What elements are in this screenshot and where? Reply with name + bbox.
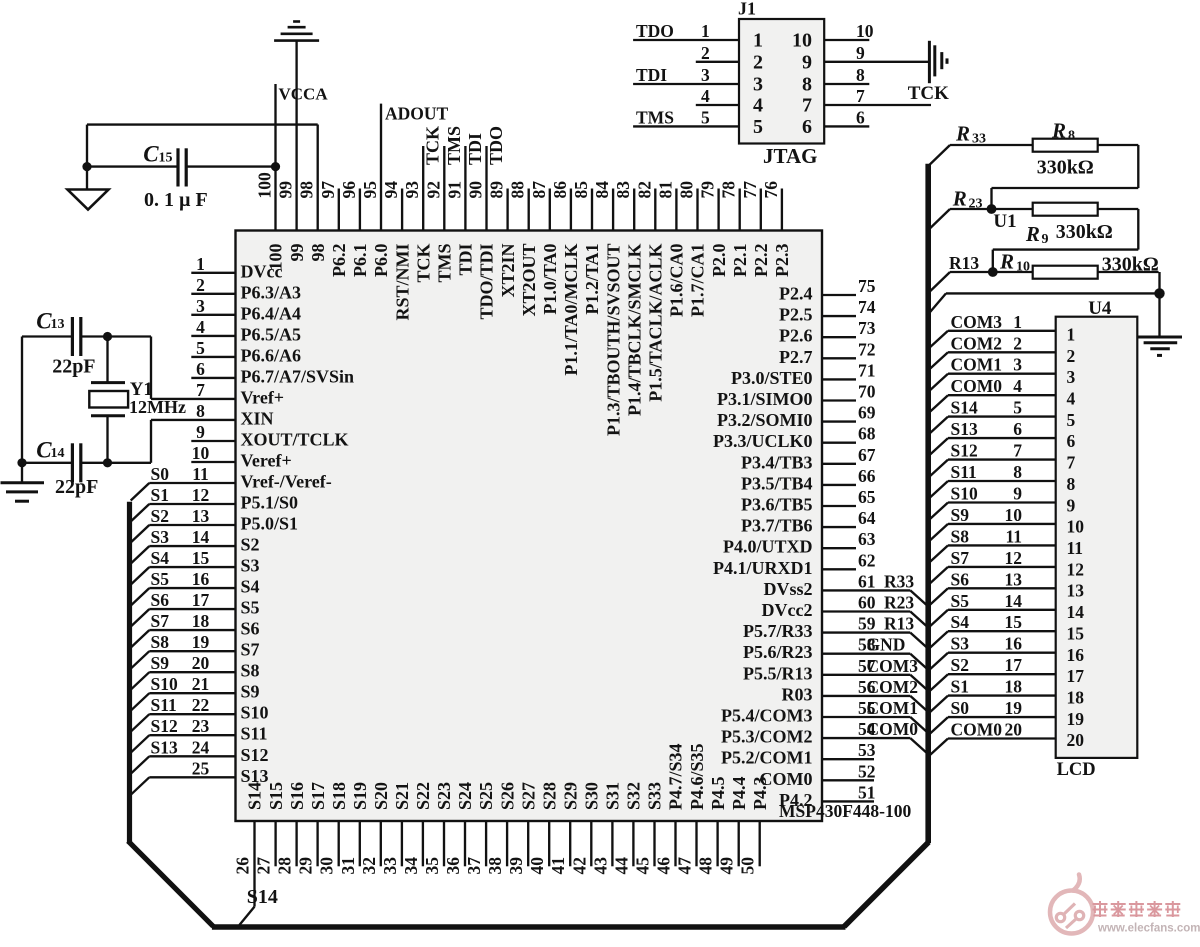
pin 23 (S11): [131, 716, 268, 753]
svg-text:5: 5: [701, 107, 710, 127]
J1 pin 4: [696, 86, 763, 117]
svg-text:S2: S2: [151, 506, 169, 526]
svg-text:51: 51: [858, 782, 876, 802]
svg-text:9: 9: [196, 422, 205, 442]
J1 pin 7: [802, 86, 931, 117]
svg-text:40: 40: [527, 857, 547, 875]
svg-text:P5.1/S0: P5.1/S0: [241, 493, 299, 513]
pin 62 (P4.1/URXD1): [713, 550, 876, 578]
pin 33 (S21): [380, 782, 412, 875]
svg-text:C: C: [143, 142, 159, 167]
U4 pin 14 (S5): [929, 591, 1084, 627]
pin 79 (P2.0): [698, 181, 729, 277]
svg-text:65: 65: [858, 487, 876, 507]
svg-text:P2.6: P2.6: [779, 326, 813, 346]
svg-text:86: 86: [550, 181, 570, 199]
svg-text:8: 8: [856, 65, 865, 85]
pin 17 (S5): [131, 590, 260, 627]
svg-text:42: 42: [569, 857, 589, 875]
svg-text:10: 10: [192, 443, 210, 463]
svg-text:80: 80: [677, 181, 697, 199]
svg-text:25: 25: [192, 758, 210, 778]
J1 pin 10: [792, 21, 874, 52]
pin 100 (100): [255, 84, 286, 271]
pin 75 (P2.4): [779, 276, 876, 304]
pin 43 (S31): [590, 782, 622, 875]
net S14 label: [247, 886, 278, 908]
pin 1 (DVcc): [191, 254, 282, 282]
wire crystal top to XIN: [108, 337, 152, 399]
svg-text:S12: S12: [241, 745, 269, 765]
svg-text:4: 4: [1013, 376, 1022, 396]
svg-text:S6: S6: [151, 590, 170, 610]
svg-text:S10: S10: [951, 484, 978, 504]
MCU MSP430F448-100 body: [236, 231, 823, 822]
svg-text:TDI: TDI: [456, 244, 476, 276]
pin 46 (P4.7/S34): [654, 743, 686, 874]
svg-text:79: 79: [698, 181, 718, 199]
svg-text:COM3: COM3: [867, 656, 919, 676]
svg-text:S29: S29: [561, 782, 581, 810]
pin 73 (P2.6): [779, 318, 876, 346]
svg-text:TDI: TDI: [465, 133, 485, 165]
pin 39 (S27): [506, 782, 538, 875]
svg-text:23: 23: [192, 716, 210, 736]
svg-text:64: 64: [858, 508, 876, 528]
pin 58 (P5.6/R23): [743, 635, 927, 669]
svg-text:5: 5: [1013, 398, 1022, 418]
svg-text:S9: S9: [151, 653, 170, 673]
pin 96 (P6.1): [339, 181, 370, 277]
svg-text:MSP430F448-100: MSP430F448-100: [779, 801, 911, 821]
capacitor C14: [22, 438, 108, 499]
svg-text:S0: S0: [151, 464, 170, 484]
svg-text:10: 10: [856, 21, 874, 41]
pin 11 (Vref-/Veref-): [131, 464, 332, 501]
pin 99 (99): [276, 41, 307, 262]
pin 9 (XOUT/TCLK): [191, 422, 348, 450]
pin 87 (P1.0/TA0): [529, 181, 560, 315]
ground (resistor ladder): [1137, 293, 1182, 355]
svg-text:22pF: 22pF: [52, 356, 95, 378]
svg-text:R: R: [955, 122, 970, 146]
pin 68 (P3.3/UCLK0): [713, 424, 876, 452]
svg-text:S31: S31: [603, 782, 623, 810]
svg-text:S14: S14: [245, 782, 265, 810]
svg-text:S33: S33: [645, 782, 665, 810]
svg-text:S9: S9: [951, 505, 970, 525]
watermark logo (elecfans): [1050, 875, 1200, 935]
junction R23: [987, 204, 997, 214]
U4 pin 5 (S14): [929, 398, 1075, 434]
svg-text:44: 44: [611, 857, 631, 875]
U4 pin 7 (S12): [929, 441, 1075, 477]
svg-text:32: 32: [359, 857, 379, 875]
svg-text:DVcc2: DVcc2: [762, 600, 813, 620]
pin 7 (Vref+): [151, 380, 284, 408]
svg-text:18: 18: [192, 611, 210, 631]
net TCK: [908, 83, 949, 104]
crystal Y1 12MHz: [89, 337, 186, 463]
svg-text:82: 82: [634, 181, 654, 199]
svg-text:33: 33: [972, 132, 986, 147]
svg-text:77: 77: [740, 181, 760, 199]
svg-text:19: 19: [1005, 698, 1023, 718]
svg-text:15: 15: [159, 151, 173, 166]
svg-text:8: 8: [1013, 462, 1022, 482]
wire left rail C13-C14: [21, 337, 23, 463]
svg-text:22pF: 22pF: [55, 476, 98, 498]
pin 26 (S14): [233, 782, 265, 925]
svg-text:49: 49: [717, 857, 737, 875]
svg-text:7: 7: [1013, 441, 1022, 461]
svg-text:48: 48: [696, 857, 716, 875]
svg-text:62: 62: [858, 550, 876, 570]
svg-text:1: 1: [196, 254, 205, 274]
svg-text:1: 1: [753, 30, 763, 52]
svg-text:91: 91: [444, 181, 464, 199]
svg-text:10: 10: [1067, 517, 1085, 537]
svg-text:7: 7: [802, 95, 812, 117]
svg-text:S4: S4: [151, 548, 170, 568]
pin 44 (S32): [611, 782, 643, 875]
svg-text:93: 93: [402, 181, 422, 199]
pin 22 (S10): [131, 695, 269, 732]
svg-text:43: 43: [590, 857, 610, 875]
svg-text:19: 19: [1067, 709, 1085, 729]
svg-text:TDO/TDI: TDO/TDI: [477, 244, 497, 320]
svg-text:95: 95: [360, 181, 380, 199]
svg-text:10: 10: [1016, 260, 1030, 275]
svg-text:S27: S27: [518, 782, 538, 810]
U4 pin 13 (S6): [929, 569, 1084, 605]
svg-text:6: 6: [856, 107, 865, 127]
svg-text:P1.1/TA0/MCLK: P1.1/TA0/MCLK: [561, 244, 581, 376]
svg-text:330kΩ: 330kΩ: [1056, 221, 1113, 243]
pin 35 (S23): [422, 782, 454, 875]
J1 pin 6: [802, 107, 869, 137]
svg-text:47: 47: [675, 857, 695, 875]
pin 55 (P5.4/COM3): [721, 698, 927, 732]
svg-text:TDO: TDO: [486, 126, 506, 165]
net VCCA: [279, 85, 329, 104]
wire R10 to ground: [1098, 272, 1160, 293]
svg-text:S12: S12: [951, 441, 978, 461]
U4 pin 11 (S8): [929, 526, 1083, 562]
svg-text:98: 98: [297, 181, 317, 199]
svg-text:S21: S21: [392, 782, 412, 810]
svg-text:5: 5: [196, 338, 205, 358]
svg-text:9: 9: [1042, 232, 1049, 247]
svg-text:S0: S0: [951, 698, 970, 718]
svg-text:P1.5/TACLK/ACLK: P1.5/TACLK/ACLK: [646, 244, 666, 402]
pin 31 (S19): [338, 782, 370, 875]
pin 81 (P1.6/CA0): [655, 181, 686, 317]
svg-text:GND: GND: [867, 635, 906, 655]
pin 57 (P5.5/R13): [743, 656, 927, 690]
svg-text:33: 33: [380, 857, 400, 875]
U4 pin 17 (S2): [929, 655, 1084, 691]
svg-text:P3.7/TB6: P3.7/TB6: [741, 516, 813, 536]
pin 95 (P6.0): [360, 104, 391, 277]
svg-text:TDO: TDO: [636, 21, 674, 41]
svg-text:37: 37: [464, 857, 484, 875]
pin 49 (P4.4): [717, 777, 749, 875]
pin 21 (S9): [131, 674, 260, 711]
pin 71 (P3.0/STE0): [731, 360, 876, 388]
svg-text:S28: S28: [539, 782, 559, 810]
pin 32 (S20): [359, 782, 391, 875]
net label TDI: [465, 133, 485, 165]
svg-text:14: 14: [1005, 591, 1023, 611]
svg-text:S12: S12: [151, 716, 178, 736]
svg-text:R: R: [999, 250, 1014, 274]
svg-text:P4.4: P4.4: [729, 777, 749, 811]
pin 90 (TDO/TDI): [466, 146, 497, 320]
J1 pin 2: [696, 43, 763, 74]
pin 93 (TCK): [402, 146, 433, 283]
svg-text:6: 6: [196, 359, 205, 379]
svg-text:P2.1: P2.1: [730, 244, 750, 278]
svg-text:88: 88: [508, 181, 528, 199]
svg-text:2: 2: [701, 43, 710, 63]
U4 pin 12 (S7): [929, 548, 1084, 584]
svg-text:12MHz: 12MHz: [129, 397, 186, 417]
connector J1 JTAG body: [738, 0, 824, 168]
svg-text:S10: S10: [241, 703, 269, 723]
svg-text:60: 60: [858, 593, 876, 613]
svg-text:Vref+: Vref+: [241, 387, 285, 407]
svg-text:87: 87: [529, 181, 549, 199]
svg-text:S7: S7: [151, 611, 170, 631]
svg-text:S19: S19: [350, 782, 370, 810]
junction C15 left: [82, 162, 91, 171]
U4 pin 15 (S4): [929, 612, 1084, 648]
pin 69 (P3.2/SOMI0): [717, 403, 876, 431]
svg-text:26: 26: [233, 857, 253, 875]
junction crystal bottom: [103, 458, 112, 467]
U4 pin 18 (S1): [929, 677, 1084, 713]
svg-text:R: R: [952, 187, 967, 211]
U4 pin 3 (COM1): [929, 355, 1075, 391]
resistor R9 330k: [1025, 203, 1113, 247]
svg-text:8: 8: [802, 74, 812, 96]
pin 45 (S33): [633, 782, 665, 875]
pin 5 (P6.6/A6): [191, 338, 301, 366]
svg-text:P1.3/TBOUTH/SVSOUT: P1.3/TBOUTH/SVSOUT: [603, 244, 623, 437]
svg-text:COM2: COM2: [867, 677, 919, 697]
svg-text:TMS: TMS: [636, 107, 674, 127]
svg-text:4: 4: [701, 86, 710, 106]
svg-text:P3.3/UCLK0: P3.3/UCLK0: [713, 431, 813, 451]
svg-text:S13: S13: [151, 737, 178, 757]
pin 36 (S24): [443, 782, 475, 875]
svg-text:P3.4/TB3: P3.4/TB3: [741, 452, 813, 472]
svg-text:21: 21: [192, 674, 210, 694]
bus (right segment): [844, 164, 929, 927]
pin 50 (P4.3): [738, 777, 770, 875]
pin 88 (XT2OUT): [508, 181, 539, 317]
svg-text:S13: S13: [951, 419, 978, 439]
svg-text:R13: R13: [884, 614, 914, 634]
node R23 / U1: [927, 187, 1032, 233]
J1 pin 5: [633, 107, 763, 137]
pin 38 (S26): [485, 782, 517, 875]
svg-text:1: 1: [1067, 325, 1076, 345]
svg-text:COM0: COM0: [951, 376, 1003, 396]
pin 80 (P1.7/CA1): [677, 181, 708, 317]
U4 pin 8 (S11): [929, 462, 1075, 498]
svg-text:66: 66: [858, 466, 876, 486]
pin 29 (S17): [296, 782, 328, 875]
svg-text:29: 29: [296, 857, 316, 875]
svg-text:P1.6/CA0: P1.6/CA0: [667, 244, 687, 318]
svg-text:2: 2: [1067, 346, 1076, 366]
svg-text:75: 75: [858, 276, 876, 296]
svg-text:ADOUT: ADOUT: [385, 104, 449, 124]
ground arrow (analog gnd): [68, 167, 109, 210]
svg-text:73: 73: [858, 318, 876, 338]
pin 40 (S28): [527, 782, 559, 875]
svg-text:P6.5/A5: P6.5/A5: [241, 324, 302, 344]
svg-text:P6.3/A3: P6.3/A3: [241, 282, 302, 302]
svg-text:9: 9: [1067, 495, 1076, 515]
svg-text:P5.4/COM3: P5.4/COM3: [721, 706, 813, 726]
svg-text:S8: S8: [951, 526, 970, 546]
svg-text:JTAG: JTAG: [763, 144, 817, 168]
svg-text:13: 13: [1067, 581, 1085, 601]
svg-text:XT2IN: XT2IN: [498, 244, 518, 298]
svg-text:7: 7: [1067, 453, 1076, 473]
svg-text:3: 3: [753, 74, 763, 96]
pin 27 (S15): [254, 782, 286, 875]
svg-text:S15: S15: [266, 782, 286, 810]
svg-text:S7: S7: [241, 640, 260, 660]
svg-text:11: 11: [1067, 538, 1084, 558]
pin 52 (COM0): [760, 761, 876, 789]
pin 16 (S4): [131, 569, 260, 606]
junction GND row: [1154, 288, 1164, 298]
svg-text:16: 16: [1067, 645, 1085, 665]
svg-text:S11: S11: [951, 462, 977, 482]
svg-text:P5.6/R23: P5.6/R23: [743, 642, 813, 662]
junction left rail bottom: [17, 458, 26, 467]
svg-text:3: 3: [701, 65, 710, 85]
svg-text:RST/NMI: RST/NMI: [392, 244, 412, 321]
svg-text:COM0: COM0: [951, 720, 1003, 740]
svg-text:S11: S11: [151, 695, 177, 715]
svg-text:16: 16: [192, 569, 210, 589]
svg-text:TCK: TCK: [413, 244, 433, 283]
svg-text:XT2OUT: XT2OUT: [519, 244, 539, 317]
pin 53 (P5.2/COM1): [721, 740, 876, 768]
svg-text:4: 4: [753, 95, 763, 117]
svg-text:7: 7: [856, 86, 865, 106]
svg-text:COM1: COM1: [867, 698, 919, 718]
U4 pin 19 (S0): [929, 698, 1084, 734]
svg-text:S1: S1: [151, 485, 169, 505]
pin 89 (XT2IN): [487, 181, 518, 298]
svg-text:R03: R03: [782, 684, 813, 704]
svg-text:17: 17: [1067, 666, 1085, 686]
part number MSP430F448-100: [779, 801, 911, 821]
svg-text:15: 15: [1067, 623, 1085, 643]
svg-text:13: 13: [51, 317, 65, 332]
node R33: [927, 122, 1032, 168]
svg-text:S1: S1: [951, 677, 969, 697]
svg-text:15: 15: [192, 548, 210, 568]
svg-text:100: 100: [266, 244, 286, 271]
U4 pin 1 (COM3): [929, 312, 1075, 348]
pin 67 (P3.4/TB3): [741, 445, 876, 473]
svg-text:35: 35: [422, 857, 442, 875]
svg-text:S5: S5: [241, 598, 260, 618]
svg-text:P4.7/S34: P4.7/S34: [666, 743, 686, 810]
svg-text:www.elecfans.com: www.elecfans.com: [1097, 923, 1200, 935]
svg-text:2: 2: [1013, 333, 1022, 353]
pin 37 (S25): [464, 782, 496, 875]
pin 65 (P3.6/TB5): [741, 487, 876, 515]
svg-text:2: 2: [196, 275, 205, 295]
svg-text:27: 27: [254, 857, 274, 875]
svg-text:19: 19: [192, 632, 210, 652]
pin 98 (98): [297, 125, 328, 262]
svg-text:TCK: TCK: [423, 126, 443, 165]
pin 91 (TDI): [444, 146, 475, 276]
svg-text:20: 20: [1005, 720, 1023, 740]
junction R13: [988, 267, 998, 277]
svg-text:18: 18: [1067, 688, 1085, 708]
svg-text:S3: S3: [241, 556, 260, 576]
pin 15 (S3): [131, 548, 260, 585]
svg-text:P4.6/S35: P4.6/S35: [687, 743, 707, 810]
svg-text:74: 74: [858, 297, 876, 317]
svg-text:P5.7/R33: P5.7/R33: [743, 621, 813, 641]
svg-text:20: 20: [1067, 730, 1085, 750]
svg-text:5: 5: [1067, 410, 1076, 430]
pin 94 (RST/NMI): [381, 181, 412, 321]
junction crystal top: [103, 332, 112, 341]
net ADOUT: [385, 104, 449, 124]
wire R8 return: [992, 145, 1139, 209]
pin 14 (S2): [131, 527, 260, 564]
svg-text:S8: S8: [241, 661, 260, 681]
resistor R10 330k: [1033, 254, 1159, 279]
svg-text:90: 90: [466, 181, 486, 199]
svg-text:S5: S5: [151, 569, 170, 589]
svg-text:S6: S6: [241, 619, 260, 639]
svg-text:S16: S16: [287, 782, 307, 810]
svg-text:P3.6/TB5: P3.6/TB5: [741, 495, 813, 515]
pin 6 (P6.7/A7/SVSin): [191, 359, 354, 387]
svg-text:6: 6: [1067, 431, 1076, 451]
svg-text:39: 39: [506, 857, 526, 875]
svg-text:31: 31: [338, 857, 358, 875]
pin 30 (S18): [317, 782, 349, 875]
pin 12 (P5.1/S0): [131, 485, 298, 522]
svg-text:99: 99: [276, 181, 296, 199]
svg-text:S23: S23: [434, 782, 454, 810]
svg-text:P2.5: P2.5: [779, 305, 813, 325]
svg-text:XOUT/TCLK: XOUT/TCLK: [241, 430, 349, 450]
svg-text:S6: S6: [951, 569, 970, 589]
svg-text:S4: S4: [241, 577, 260, 597]
svg-text:3: 3: [1067, 367, 1076, 387]
resistor R8 330k: [1033, 119, 1098, 179]
svg-text:P5.5/R13: P5.5/R13: [743, 663, 813, 683]
svg-text:P3.1/SIMO0: P3.1/SIMO0: [717, 389, 813, 409]
pin 84 (P1.3/TBOUTH/SVSOUT): [592, 181, 623, 436]
